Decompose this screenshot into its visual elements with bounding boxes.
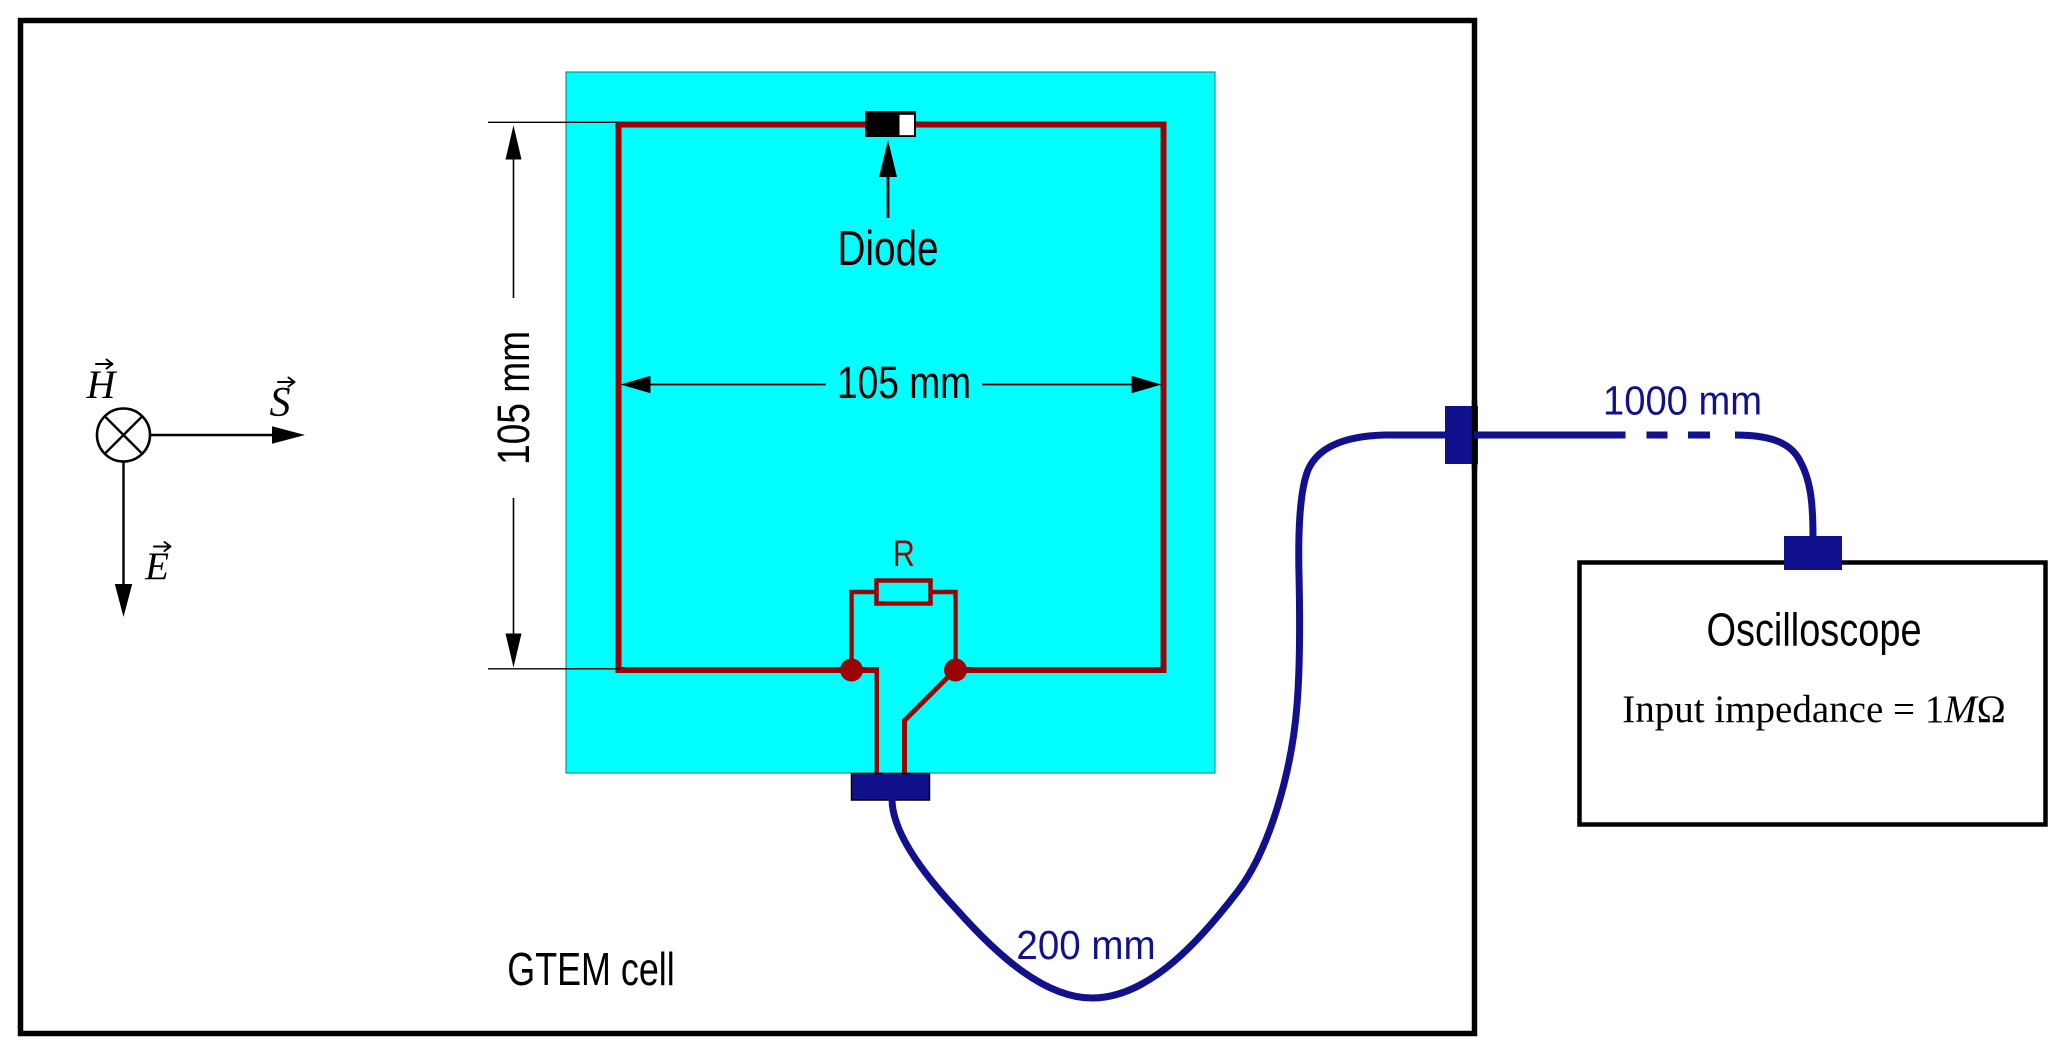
diode body [865,111,916,137]
wire loop (red, open between feed points) [619,125,1164,671]
resistor right lead [931,592,956,670]
horizontal dimension arrowhead left [621,376,651,393]
resistor left lead [852,592,877,670]
bulkhead connector on GTEM wall [1445,406,1478,464]
svg-text:105 mm: 105 mm [837,358,971,408]
resistor body [877,581,931,604]
bottom feed connector [852,774,930,801]
svg-text:GTEM cell: GTEM cell [507,944,674,995]
svg-text:H: H [86,362,118,407]
svg-text:S: S [270,380,291,426]
junction node right [944,659,967,682]
dimension extension line bottom [488,668,620,670]
wire: loop bottom to feed corner [875,668,880,775]
vertical dimension arrowhead up [506,125,522,159]
svg-text:200 mm: 200 mm [1016,923,1155,968]
svg-text:Input impedance = 1MΩ: Input impedance = 1MΩ [1622,688,2005,731]
diode pointer arrow [887,172,890,218]
GTEM wall segment over connector [1472,400,1478,470]
oscilloscope input connector [1784,536,1842,570]
coax cable 1000 mm (dashed run) [1474,432,1626,439]
svg-text:1000 mm: 1000 mm [1603,378,1762,424]
svg-text:Diode: Diode [837,222,938,276]
vertical dimension arrowhead down [506,634,522,668]
GTEM cell outer box [21,21,1475,1034]
diode cathode band (white) [900,115,915,135]
field axes: H into page symbol [97,409,150,462]
oscilloscope box [1580,563,2046,825]
cyan PCB plate [566,72,1215,773]
svg-text:105 mm: 105 mm [489,331,539,465]
svg-text:R: R [893,533,915,575]
junction node left [840,659,863,682]
wire: diagonal feed from right node [905,673,953,774]
S axis arrow [150,434,278,436]
dimension extension line top [488,121,618,123]
svg-text:Oscilloscope: Oscilloscope [1706,604,1921,655]
horizontal dimension arrowhead right [1132,376,1162,393]
horizontal dimension line 105 mm [648,384,826,386]
E axis arrow [122,462,124,591]
vertical dimension line 105 mm [513,158,515,298]
coax cable 200 mm [892,435,1446,998]
